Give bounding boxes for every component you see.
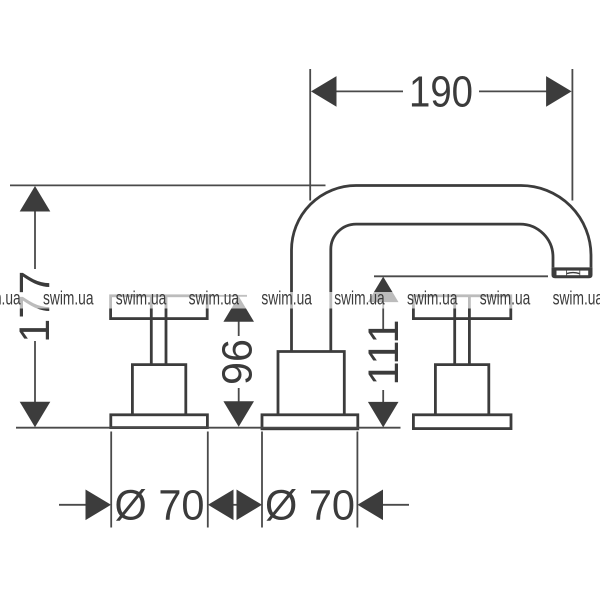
spout aerator tip (552, 267, 593, 278)
right handle body block (435, 365, 488, 415)
svg-text:swim.ua: swim.ua (480, 289, 531, 310)
spout outer profile (292, 186, 592, 352)
diameter 70 left-dim right-pointing arrowhead (86, 490, 112, 521)
watermark band (0, 292, 600, 309)
right handle stem (455, 296, 470, 365)
111 down arrowhead (368, 402, 399, 428)
177 top reference line (10, 184, 326, 186)
svg-text:swim.ua: swim.ua (116, 289, 167, 310)
left handle flange (111, 415, 208, 428)
190 left arrowhead (311, 76, 337, 107)
96 up arrowhead (223, 296, 254, 322)
diameter 70 right-dim right-pointing arrowhead (237, 490, 263, 521)
190 dimension line (334, 90, 548, 92)
diameter 70 right tail (381, 504, 409, 506)
svg-text:swim.ua: swim.ua (0, 289, 21, 310)
svg-text:swim.ua: swim.ua (261, 289, 312, 310)
96 dimension line (238, 320, 240, 403)
diameter 70 left-dim left-pointing arrowhead (208, 490, 234, 521)
111 outlet reference line (374, 275, 548, 277)
right handle top bar (413, 296, 510, 319)
svg-text:swim.ua: swim.ua (334, 289, 385, 310)
diameter 70 left tail (59, 504, 87, 506)
spout inner profile (331, 224, 553, 351)
111 up arrowhead (368, 277, 399, 303)
svg-text:swim.ua: swim.ua (43, 289, 94, 310)
right handle flange (413, 415, 511, 429)
177 dimension line (34, 210, 36, 403)
diameter 70 right-dim left-pointing arrowhead (358, 490, 384, 521)
svg-text:190: 190 (409, 68, 473, 117)
177 up arrowhead (20, 186, 51, 212)
96 down arrowhead (223, 401, 254, 427)
diameter 70 middle connector (231, 504, 239, 506)
left handle flange extension lines (111, 432, 208, 528)
111 dimension line (382, 301, 384, 404)
left handle body block (132, 365, 185, 415)
svg-text:swim.ua: swim.ua (407, 289, 458, 310)
spout base flange (262, 415, 358, 429)
96 top reference extension (208, 295, 247, 297)
190 right extension line (571, 69, 573, 201)
spout base block (278, 352, 344, 415)
svg-text:96: 96 (214, 339, 262, 385)
177 down arrowhead (20, 402, 51, 428)
177/96/111 bottom reference line (16, 427, 401, 429)
left handle top bar (111, 296, 208, 319)
watermark text row (0, 289, 600, 310)
190 right arrowhead (546, 76, 572, 107)
spout flange extension lines (262, 432, 357, 528)
left handle stem (151, 296, 166, 365)
svg-text:swim.ua: swim.ua (189, 289, 240, 310)
190 left extension line (309, 69, 311, 201)
svg-text:swim.ua: swim.ua (553, 289, 600, 310)
svg-text:Ø 70: Ø 70 (115, 482, 205, 530)
svg-text:111: 111 (360, 320, 408, 386)
svg-text:Ø 70: Ø 70 (265, 482, 355, 530)
